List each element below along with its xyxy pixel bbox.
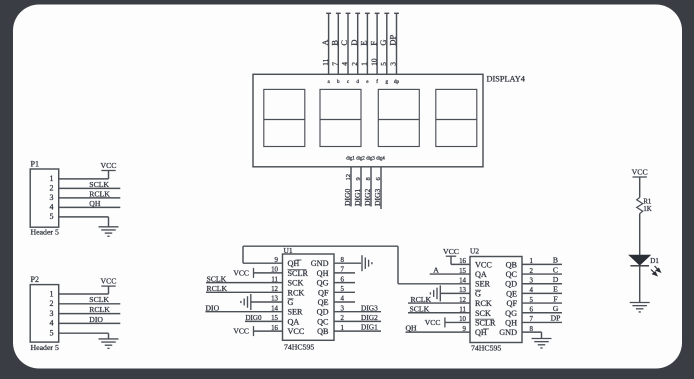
wire U1 pin9 cascade to U2 pin14 [243, 262, 283, 264]
svg-text:QH: QH [406, 324, 418, 333]
display DISPLAY4 box [253, 74, 483, 167]
wire display segment B [337, 13, 339, 74]
wire display digit pin 8 [370, 167, 372, 207]
svg-text:DIG2: DIG2 [363, 189, 372, 206]
svg-text:5: 5 [50, 212, 54, 221]
wire U2 pin3 D [522, 283, 562, 285]
svg-text:QH: QH [475, 328, 487, 337]
LED emission arrows [651, 266, 660, 276]
svg-text:QF: QF [507, 299, 518, 308]
wire display segment DP [396, 13, 398, 74]
wire P2 pin3 RCLK [59, 313, 121, 315]
wire U1 pin6 stub [334, 282, 355, 284]
svg-text:QG: QG [317, 279, 329, 288]
display digit 3 box [378, 89, 419, 146]
svg-text:3: 3 [50, 193, 54, 202]
wire P1 pin5 to ground [59, 216, 109, 218]
svg-text:74HC595: 74HC595 [284, 342, 314, 351]
net label DP [389, 35, 398, 46]
svg-text:SCLK: SCLK [89, 295, 109, 304]
svg-text:2: 2 [50, 184, 54, 193]
svg-text:DIG3: DIG3 [361, 303, 378, 312]
power VCC (P1) [101, 170, 115, 172]
svg-text:C: C [340, 40, 349, 46]
svg-text:dig1: dig1 [346, 157, 355, 162]
pin number 7 [331, 62, 340, 66]
pin number 2 [350, 62, 359, 66]
svg-text:SER: SER [288, 308, 304, 317]
svg-text:QE: QE [318, 298, 329, 307]
svg-text:B: B [331, 40, 340, 46]
power VCC (P2) [101, 285, 115, 287]
svg-text:RCK: RCK [475, 299, 492, 308]
svg-text:5: 5 [379, 62, 388, 66]
svg-text:d: d [356, 79, 359, 85]
svg-text:4: 4 [50, 319, 54, 328]
svg-text:QE: QE [506, 289, 517, 298]
wire U2 pin9 QH [406, 331, 471, 333]
wire display digit pin 6 [380, 167, 382, 209]
net label DIG3 [373, 189, 382, 206]
wire VCC to R1 [639, 177, 641, 198]
svg-text:QH: QH [89, 199, 101, 208]
pin number 9 [355, 177, 362, 181]
svg-text:1K: 1K [643, 206, 651, 213]
ground (D1) [630, 302, 650, 304]
svg-text:7: 7 [331, 62, 340, 66]
svg-text:SCLR: SCLR [288, 269, 309, 278]
net label D [350, 40, 359, 46]
svg-text:D1: D1 [650, 257, 659, 265]
svg-text:SCLR: SCLR [475, 318, 496, 327]
wire P1 pin2 SCLK [59, 187, 121, 189]
svg-text:G: G [553, 304, 559, 313]
wire U2 pin11 SCLK [408, 312, 470, 314]
wire U2 pin10 [445, 321, 470, 323]
net label A [321, 40, 330, 46]
wire display segment E [366, 13, 368, 74]
wire U1 pin5 stub [334, 291, 355, 293]
power VCC (U2) [446, 255, 456, 257]
power VCC bar (U1 pin10) [253, 268, 255, 278]
wire U2 pin8 to ground [522, 331, 542, 333]
svg-text:QG: QG [505, 309, 517, 318]
svg-text:C: C [553, 265, 558, 274]
svg-text:U1: U1 [284, 246, 293, 255]
wire U1 pin3 DIG3 [334, 311, 381, 313]
svg-text:GND: GND [311, 259, 329, 268]
svg-text:VCC: VCC [425, 318, 441, 327]
svg-text:QD: QD [505, 280, 517, 289]
svg-text:DISPLAY4: DISPLAY4 [487, 75, 526, 84]
svg-text:DP: DP [389, 35, 398, 46]
pin number 8 [365, 177, 372, 181]
svg-text:QF: QF [318, 288, 329, 297]
ground (P1) [99, 226, 119, 228]
wire P2 pin2 SCLK [59, 303, 121, 305]
svg-text:VCC: VCC [233, 327, 249, 336]
svg-text:10: 10 [369, 58, 378, 66]
net label F [369, 41, 378, 46]
wire U1 pin11 SCLK [206, 282, 283, 284]
svg-text:F: F [369, 41, 378, 46]
svg-text:E: E [360, 40, 369, 45]
wire U2 pin1 B [522, 263, 562, 265]
svg-text:74HC595: 74HC595 [471, 344, 501, 353]
svg-text:DIG1: DIG1 [361, 323, 378, 332]
net label B [331, 40, 340, 46]
svg-text:G: G [475, 289, 481, 298]
pin number 3 [389, 62, 398, 66]
svg-text:VCC: VCC [288, 327, 305, 336]
wire U1 pin8 to ground [334, 262, 361, 264]
svg-text:4: 4 [340, 62, 349, 66]
pin number 1 [360, 62, 369, 66]
pin number 6 [375, 177, 382, 181]
wire U1 pin2 DIG2 [334, 320, 381, 322]
svg-text:DIG2: DIG2 [361, 313, 378, 322]
svg-text:GND: GND [499, 328, 517, 337]
wire P1 pin1 to VCC [59, 178, 109, 180]
svg-text:dp: dp [394, 79, 400, 85]
wire U2 pin15 A [430, 273, 470, 275]
svg-text:14: 14 [459, 277, 466, 284]
svg-text:G: G [288, 298, 294, 307]
wire P1 pin3 RCLK [59, 197, 121, 199]
svg-text:5: 5 [50, 329, 54, 338]
wire U1 pin15 DIG0 [245, 320, 283, 322]
wire P2 pin5 to ground [59, 332, 109, 334]
svg-text:b: b [337, 79, 340, 85]
svg-text:QA: QA [288, 317, 300, 326]
ground (U1 pin13) [250, 294, 252, 310]
pin number 4 [340, 62, 349, 66]
wire P2 pin1 to VCC [59, 293, 109, 295]
svg-text:RCLK: RCLK [89, 305, 110, 314]
wire display segment G [386, 13, 388, 74]
connector P1 box [30, 169, 59, 227]
svg-text:SER: SER [475, 280, 491, 289]
svg-text:11: 11 [321, 58, 330, 65]
wire U1 pin13 to ground [251, 301, 283, 303]
svg-text:B: B [553, 256, 558, 265]
ground (U2 pin8) [532, 338, 552, 340]
svg-text:12: 12 [345, 174, 352, 181]
power VCC (R1) [633, 176, 647, 178]
ground (P2) [99, 338, 119, 340]
svg-text:D: D [553, 275, 559, 284]
svg-text:RCLK: RCLK [89, 189, 110, 198]
svg-text:DIG3: DIG3 [373, 189, 382, 206]
net label DIG0 [343, 189, 352, 206]
svg-text:P2: P2 [31, 275, 39, 284]
svg-text:4: 4 [50, 203, 54, 212]
wire display digit pin 12 [350, 167, 352, 207]
svg-text:QD: QD [317, 308, 329, 317]
svg-text:SCLK: SCLK [89, 180, 109, 189]
wire U1 pin7 stub [334, 272, 355, 274]
wire display segment C [347, 13, 349, 74]
svg-text:DIG0: DIG0 [343, 189, 352, 206]
svg-text:2: 2 [350, 62, 359, 66]
wire U1 pin1 DIG1 [334, 330, 381, 332]
svg-text:G: G [379, 40, 388, 46]
svg-text:1: 1 [50, 289, 54, 298]
svg-text:F: F [553, 294, 557, 303]
svg-text:VCC: VCC [443, 247, 459, 256]
wire U1 pin4 stub [334, 301, 355, 303]
svg-text:QB: QB [506, 260, 518, 269]
display digit 2 box [320, 89, 361, 146]
power VCC bar (U2 pin10) [444, 317, 446, 327]
svg-text:1: 1 [50, 174, 54, 183]
wire U1 pin12 RCLK [206, 291, 283, 293]
pin number 11 [321, 58, 330, 65]
pin number 12 [345, 174, 352, 181]
wire U2 pin5 F [522, 302, 562, 304]
ground (U2 pin13) [439, 285, 441, 301]
svg-text:QB: QB [317, 327, 329, 336]
svg-text:2: 2 [50, 299, 54, 308]
svg-text:SCLK: SCLK [207, 274, 227, 283]
svg-text:1: 1 [360, 62, 369, 66]
wire display segment D [357, 13, 359, 74]
svg-text:DIG1: DIG1 [353, 189, 362, 206]
svg-text:3: 3 [389, 62, 398, 66]
wire display segment A [328, 13, 330, 74]
svg-text:VCC: VCC [100, 277, 116, 286]
wire U2 pin6 G [522, 312, 562, 314]
net label E [360, 40, 369, 45]
svg-text:VCC: VCC [475, 260, 492, 269]
pin number 5 [379, 62, 388, 66]
svg-text:SCK: SCK [475, 309, 491, 318]
svg-text:RCLK: RCLK [207, 284, 228, 293]
svg-text:3: 3 [50, 309, 54, 318]
net label C [340, 40, 349, 46]
svg-text:Header 5: Header 5 [31, 227, 59, 236]
wire display segment F [376, 13, 378, 74]
svg-text:P1: P1 [31, 159, 39, 168]
svg-text:dig4: dig4 [376, 157, 385, 162]
svg-text:QA: QA [475, 270, 487, 279]
svg-text:QH: QH [317, 269, 329, 278]
svg-text:VCC: VCC [632, 168, 648, 177]
svg-text:U2: U2 [470, 246, 479, 255]
wire U2 pin4 E [522, 292, 562, 294]
wire U2 pin12 RCLK [408, 302, 470, 304]
wire P1 pin4 QH [59, 206, 121, 208]
display digit 1 box [264, 89, 305, 146]
display digit 4 box [436, 89, 477, 146]
svg-text:E: E [553, 285, 558, 294]
wire U1 pin10 [254, 272, 283, 274]
svg-text:VCC: VCC [233, 269, 249, 278]
diode D1 LED [629, 255, 650, 265]
wire P2 pin4 DIO [59, 322, 121, 324]
net label DIG1 [353, 189, 362, 206]
wire display digit pin 9 [360, 167, 362, 207]
svg-text:QH: QH [505, 318, 517, 327]
wire D1 to ground [639, 266, 641, 303]
op U2 box [470, 257, 522, 343]
svg-text:Header 5: Header 5 [31, 343, 59, 352]
power VCC bar (U1 pin16) [253, 326, 255, 336]
svg-text:SCK: SCK [288, 279, 304, 288]
wire U2 pin13 to ground [440, 292, 470, 294]
pin number 10 [369, 58, 378, 66]
wire U2 pin16 to VCC [451, 263, 470, 265]
svg-text:dig3: dig3 [366, 157, 375, 162]
op U1 box [283, 254, 335, 340]
wire U1 pin16 [254, 330, 283, 332]
svg-text:QH: QH [288, 259, 300, 268]
wire R1 to D1 [639, 214, 641, 256]
net label G [379, 40, 388, 46]
svg-text:dig2: dig2 [356, 157, 365, 162]
connector P2 box [30, 285, 59, 343]
svg-text:QC: QC [317, 317, 329, 326]
svg-text:DP: DP [551, 314, 561, 323]
wire U2 pin2 C [522, 273, 562, 275]
ground (U1 pin8) [361, 255, 363, 271]
svg-text:A: A [433, 266, 439, 275]
svg-text:A: A [321, 40, 330, 46]
svg-text:DIO: DIO [89, 315, 103, 324]
svg-text:f: f [376, 78, 378, 85]
wire U1 pin14 DIO [206, 311, 283, 313]
wire U2 pin7 DP [522, 321, 562, 323]
svg-text:RCK: RCK [288, 288, 305, 297]
svg-text:D: D [350, 40, 359, 46]
svg-text:DIG0: DIG0 [246, 314, 262, 322]
svg-text:g: g [386, 79, 389, 85]
svg-text:SCLK: SCLK [410, 305, 430, 314]
net label DIG2 [363, 189, 372, 206]
svg-text:QC: QC [506, 270, 518, 279]
svg-text:VCC: VCC [100, 161, 116, 170]
svg-text:DIO: DIO [206, 304, 220, 313]
svg-text:R1: R1 [643, 198, 651, 205]
svg-text:RCLK: RCLK [411, 295, 432, 304]
resistor R1 [637, 198, 643, 214]
